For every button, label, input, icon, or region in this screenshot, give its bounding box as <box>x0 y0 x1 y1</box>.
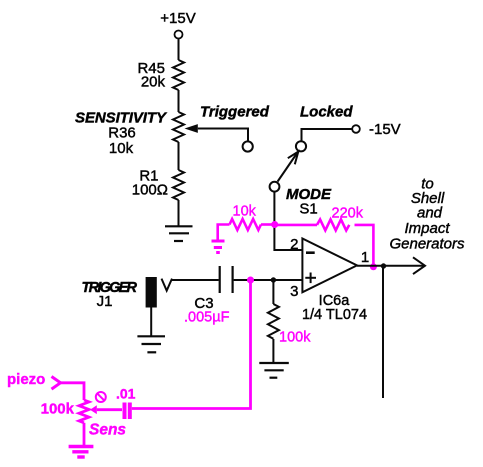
svg-text:100Ω: 100Ω <box>132 182 168 199</box>
wire piezo to pot <box>61 383 85 400</box>
wire R1 to ground <box>178 200 180 226</box>
wire jack J1 to ground <box>150 308 152 337</box>
svg-text:1/4 TL074: 1/4 TL074 <box>302 307 367 323</box>
ground magenta bottom <box>69 447 94 458</box>
svg-text:Impact: Impact <box>404 220 450 237</box>
ground magenta (10k) <box>212 241 225 253</box>
wire jack to C3 <box>171 279 219 281</box>
potentiometer R36 body <box>173 112 184 142</box>
capacitor C3 <box>220 266 233 293</box>
wire magenta from pin3 node down <box>132 280 251 409</box>
svg-text:R36: R36 <box>108 124 136 141</box>
switch S1 pole <box>270 182 280 192</box>
svg-text:S1: S1 <box>299 201 317 218</box>
wire output down <box>382 266 384 398</box>
wire R45 to R36 <box>178 90 180 112</box>
resistor R1 <box>173 170 184 200</box>
junction output magenta dot <box>370 263 377 270</box>
wire magenta ground to 10k <box>218 225 230 240</box>
svg-text:Sens: Sens <box>89 422 126 439</box>
node +15V terminal <box>175 31 183 39</box>
junction magenta on pin3 wire <box>247 277 254 284</box>
switch S1 lever arrow <box>278 152 299 182</box>
svg-text:Generators: Generators <box>389 236 465 253</box>
label to Shell and Impact Generators <box>389 176 465 253</box>
svg-text:J1: J1 <box>97 293 113 310</box>
svg-text:Locked: Locked <box>300 104 353 121</box>
wire 10k to junction <box>261 223 275 226</box>
wire +15V to R45 <box>178 39 180 60</box>
svg-text:220k: 220k <box>332 206 364 222</box>
node -15V terminal <box>352 125 360 133</box>
svg-text:Triggered: Triggered <box>200 104 270 121</box>
svg-text:100k: 100k <box>279 330 311 346</box>
junction feedback node <box>271 221 278 228</box>
junction pin3 black dot <box>271 277 276 282</box>
resistor R45 <box>173 60 184 90</box>
wire wiper to Triggered contact <box>198 129 248 142</box>
svg-text:-15V: -15V <box>369 121 401 138</box>
wire op-amp output <box>357 265 424 267</box>
wire 220k to op-amp output <box>355 225 374 267</box>
junction output black dot <box>381 263 386 268</box>
wire 100k to ground <box>272 339 274 363</box>
potentiometer Sens wiper <box>90 405 97 414</box>
wire S1 pole to op-amp pin 2 <box>274 191 302 250</box>
resistor 100k <box>268 304 279 339</box>
potentiometer 100k Sens body <box>79 400 89 423</box>
wire pin3 node to 100k <box>272 280 274 304</box>
wire wiper to .01 cap <box>97 408 122 411</box>
svg-text:piezo: piezo <box>7 371 45 388</box>
svg-text:10k: 10k <box>109 140 134 157</box>
svg-text:.005µF: .005µF <box>184 310 230 326</box>
op-amp plus input symbol <box>305 273 316 284</box>
wire R36 to R1 <box>178 142 180 170</box>
capacitor .01 <box>125 403 130 420</box>
trimmer screwdriver symbol <box>96 392 106 402</box>
wire C3 to op-amp pin 3 <box>234 279 303 281</box>
arrow to generators <box>413 257 425 274</box>
jack J1 body <box>146 277 157 308</box>
svg-text:+15V: +15V <box>160 10 195 27</box>
resistor 10k magenta <box>230 219 261 230</box>
wire Locked contact to -15V <box>302 129 353 141</box>
svg-text:2: 2 <box>290 236 298 253</box>
piezo connector chevron <box>52 377 61 390</box>
op-amp IC6a <box>302 239 357 293</box>
svg-text:and: and <box>417 204 443 221</box>
svg-text:1: 1 <box>361 249 369 266</box>
ground below R1 <box>165 226 193 241</box>
potentiometer R36 wiper arrow <box>185 124 198 133</box>
svg-text:100k: 100k <box>41 401 75 418</box>
switch S1 contact Triggered <box>243 141 253 151</box>
jack J1 tip contact <box>162 279 173 291</box>
ground below J1 <box>137 336 165 352</box>
op-amp minus input symbol <box>306 251 315 254</box>
switch S1 contact Locked <box>296 141 306 151</box>
wire pot to ground <box>83 423 86 445</box>
svg-text:20k: 20k <box>141 74 166 91</box>
ground below 100k <box>259 363 289 378</box>
svg-text:3: 3 <box>290 283 298 300</box>
resistor 220k magenta <box>317 219 349 230</box>
svg-text:.01: .01 <box>116 386 136 402</box>
wire junction to 220k <box>275 224 317 227</box>
